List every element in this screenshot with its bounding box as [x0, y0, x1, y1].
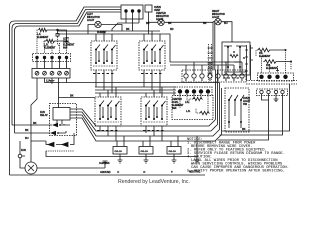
resistor L.R. element: [46, 39, 67, 42]
wire switch RF leads: [146, 87, 162, 141]
wire center light to connector: [212, 22, 214, 70]
fan relay coil box: [53, 108, 70, 121]
oven control connector strip: [182, 70, 246, 82]
relay contact A: [52, 123, 58, 127]
svg-text:L.F.: L.F.: [185, 101, 189, 104]
terminal L1: [124, 9, 127, 12]
relay contact C: [31, 141, 68, 147]
wire connector top runs: [170, 62, 242, 65]
wire block leads: [37, 59, 67, 69]
right element terminal block: [258, 73, 294, 81]
resistor L.F. element: [39, 28, 67, 41]
wire center element leads dashed: [180, 94, 208, 113]
terminal N: [131, 9, 134, 12]
wire mid distribution: [95, 87, 176, 93]
svg-text:BK: BK: [203, 22, 207, 25]
switch pin labels S1: [93, 73, 114, 75]
resistor center element A: [193, 97, 202, 100]
vertical bundle center right: [216, 70, 222, 135]
svg-text:BU: BU: [224, 22, 228, 25]
wire risers right of clock: [250, 45, 252, 80]
svg-text:OVL-1G: OVL-1G: [141, 151, 149, 153]
svg-text:ELEMENT: ELEMENT: [37, 36, 49, 39]
clock internal lines: [224, 46, 246, 72]
svg-text:8&6: 8&6: [63, 47, 68, 50]
wire top distribution A: [57, 30, 160, 32]
switch left rear: [139, 41, 165, 70]
svg-text:BK: BK: [126, 28, 130, 31]
wire element leads dashed: [37, 30, 67, 54]
left surface terminal strip: [32, 69, 70, 79]
svg-text:BU: BU: [25, 137, 29, 140]
wire right element leads dashed: [256, 50, 291, 73]
resistor R.R. element: [265, 60, 292, 64]
ovl fuse box 3: [167, 147, 181, 155]
center element terminal block: [174, 87, 212, 96]
wire L1 supply bundle outer: [10, 7, 122, 175]
svg-text:BK: BK: [168, 22, 172, 25]
ovl fuse box 1: [113, 147, 127, 155]
wire switch LF leads: [96, 31, 112, 93]
wire right strip leads: [218, 84, 290, 140]
switch center: [95, 97, 121, 126]
clock control box: [222, 42, 250, 75]
svg-text:ELEMENT: ELEMENT: [44, 47, 56, 50]
svg-text:CHASSIS: CHASSIS: [99, 162, 110, 165]
center element dashed enclosure: [172, 96, 213, 120]
svg-text:BK: BK: [146, 22, 150, 25]
wire L2 supply bundle inner: [15, 12, 122, 133]
wire strip leads down: [31, 78, 220, 141]
ground symbol 2: [118, 160, 123, 163]
switch oven dashed box: [225, 88, 249, 132]
wire ovl leads: [117, 136, 178, 160]
wire fan relay feed: [57, 98, 62, 126]
relay contact B: [50, 131, 56, 135]
power terminal block: [121, 5, 143, 19]
svg-text:L1A: L1A: [46, 80, 51, 83]
svg-text:LIGHT: LIGHT: [212, 16, 220, 19]
ovl fuse box 2: [139, 147, 153, 155]
wire fan leads: [20, 141, 105, 168]
left element terminal block: [33, 54, 71, 62]
left indicator light L1: [95, 21, 101, 27]
wire relay feed A: [12, 124, 52, 126]
svg-text:Rendered by LeadVenture, Inc.: Rendered by LeadVenture, Inc.: [118, 179, 190, 185]
oven vent switch: [145, 5, 152, 12]
svg-text:BK: BK: [25, 129, 29, 132]
ground symbol neutral: [195, 160, 200, 163]
wire neutral run: [46, 136, 197, 160]
svg-text:RELAY: RELAY: [40, 114, 48, 117]
wire terminal leads: [112, 12, 139, 31]
svg-text:ELEMENT: ELEMENT: [259, 55, 271, 58]
wire switch LR leads: [144, 31, 160, 93]
resistor R.F. element: [258, 48, 286, 52]
switch pin labels S3: [97, 130, 118, 132]
chassis ground: [103, 161, 108, 166]
clock pin labels: [223, 77, 244, 79]
dashed strip right: [246, 81, 297, 85]
fan relay dashed box: [50, 104, 77, 136]
resistor in clock: [230, 55, 238, 58]
relay coil left: [228, 46, 240, 68]
wire right indicator lead: [221, 22, 232, 42]
wire switch C leads: [100, 87, 116, 141]
wire center indicator leads: [149, 21, 215, 24]
svg-text:OVL-1G: OVL-1G: [115, 151, 123, 153]
svg-text:L.R.: L.R.: [186, 110, 191, 113]
ground at strip: [50, 78, 55, 83]
switch pin labels S2: [141, 73, 162, 75]
wire clock leads: [247, 45, 254, 80]
svg-text:RD: RD: [170, 28, 174, 31]
connector pin numbers: [185, 79, 243, 81]
svg-text:BK: BK: [33, 122, 37, 125]
svg-text:8&6: 8&6: [172, 107, 177, 110]
wire neutral supply bundle middle: [12, 10, 121, 126]
ground symbol 4: [172, 160, 177, 163]
wire relay output bundle: [70, 109, 222, 141]
svg-text:FAN: FAN: [21, 149, 26, 152]
terminal L2: [137, 9, 140, 12]
notes block: [187, 138, 289, 174]
wire left indicator leads: [88, 25, 122, 35]
svg-text:ELEMENT: ELEMENT: [266, 67, 278, 70]
wire top distribution B: [57, 34, 170, 62]
svg-text:LIGHT: LIGHT: [156, 18, 164, 21]
switch right front: [141, 97, 167, 126]
svg-text:LIGHT: LIGHT: [87, 19, 95, 22]
center indicator light: [158, 19, 164, 25]
right terminal strip: [257, 89, 288, 96]
svg-text:OVL-1G: OVL-1G: [169, 151, 177, 153]
svg-text:BK: BK: [70, 95, 74, 98]
switch left front: [91, 41, 117, 70]
svg-text:GROUND: GROUND: [100, 171, 111, 174]
ground right strip: [274, 94, 279, 102]
fan motor: [25, 162, 37, 174]
switch pin labels S4: [143, 130, 164, 132]
wire bottom run: [10, 174, 206, 176]
svg-text:BU/WHT: BU/WHT: [97, 31, 107, 34]
oven switch contacts: [229, 95, 244, 122]
connector P1 dashed column: [209, 44, 212, 80]
fan capacitor: [18, 154, 22, 158]
svg-text:BK: BK: [242, 128, 246, 131]
right indicator light: [215, 19, 221, 25]
wire right light to connector: [214, 22, 216, 70]
wire connector leads up: [186, 62, 242, 74]
resistor center element B: [200, 111, 209, 114]
ground symbol 3: [144, 160, 149, 163]
svg-text:5. VERIFY PROPER OPERATION AFT: 5. VERIFY PROPER OPERATION AFTER SERVICI…: [187, 170, 285, 174]
wire relay feed B: [15, 132, 51, 134]
